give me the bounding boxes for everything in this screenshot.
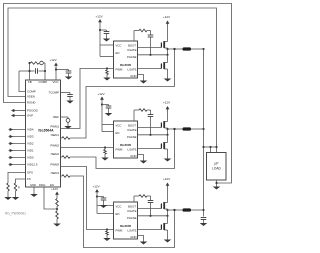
capacitor output bulk xyxy=(201,217,207,219)
svg-text:COMP: COMP xyxy=(39,80,48,84)
wire load feed drop 1 xyxy=(210,147,212,153)
svg-text:ISL6605: ISL6605 xyxy=(120,224,132,228)
svg-text:VID3: VID3 xyxy=(27,135,34,139)
resistor EN upper xyxy=(56,199,59,207)
wire PGOOD xyxy=(14,110,26,112)
wire Q1A source to phase xyxy=(167,48,169,55)
ground PWM2 pulldown xyxy=(104,154,106,158)
svg-text:VID0: VID0 xyxy=(27,156,34,160)
wire VID1 input xyxy=(9,150,26,152)
transistor Q1B lower xyxy=(160,64,162,69)
ground driver 1 xyxy=(140,81,148,84)
node load feed junction 2 xyxy=(209,146,211,148)
wire COMP top stub xyxy=(44,63,46,80)
uP load box xyxy=(207,153,227,181)
wire load feed xyxy=(204,146,217,148)
wire Q2A drain xyxy=(167,109,169,122)
power +12V driver 1 xyxy=(99,21,101,24)
wire driver 2 GND pin xyxy=(138,155,144,161)
wire PWM3 route xyxy=(61,167,114,230)
svg-text:OVP: OVP xyxy=(27,114,33,118)
svg-text:PWM: PWM xyxy=(116,68,124,72)
wire Q1A drain xyxy=(167,24,169,42)
wire EN sense route xyxy=(44,187,57,209)
wire phase node 3 xyxy=(168,209,183,211)
svg-text:EN: EN xyxy=(116,212,120,216)
node phase FET junction 1 xyxy=(166,48,168,50)
node driver 2 cap junction xyxy=(101,103,103,105)
svg-text:PHASE: PHASE xyxy=(127,135,137,139)
svg-text:PWM2: PWM2 xyxy=(50,144,59,148)
svg-text:RG_PW000A1: RG_PW000A1 xyxy=(5,212,26,216)
svg-text:OFS: OFS xyxy=(27,171,33,175)
capacitor driver 2 decoupling xyxy=(102,104,109,106)
ground PWM1 pulldown xyxy=(106,75,108,78)
svg-text:PWM: PWM xyxy=(116,229,124,233)
wire PHASE pin 2 xyxy=(138,134,168,136)
svg-text:GND: GND xyxy=(30,183,36,187)
wire ISEN1 route xyxy=(70,49,175,138)
svg-text:ISEN1: ISEN1 xyxy=(51,133,60,137)
wire VCC stub xyxy=(55,67,57,81)
capacitor bootstrap C2 xyxy=(148,114,154,116)
svg-text:COMP: COMP xyxy=(27,90,36,94)
resistor ISEN1 xyxy=(61,137,63,139)
power +12V FET 1 xyxy=(167,22,169,25)
svg-text:+12V: +12V xyxy=(163,101,170,105)
wire driver 3 GND pin xyxy=(138,236,144,242)
svg-text:FB: FB xyxy=(28,80,32,84)
wire driver 2 vcc column xyxy=(101,100,103,132)
ground controller GND xyxy=(30,194,38,197)
ground Q3B source xyxy=(164,240,172,243)
node PWM1 pulldown junction xyxy=(106,67,108,69)
node VOUT-phase3 junction xyxy=(202,209,204,211)
resistor comp R xyxy=(31,62,40,65)
wire LGATE 1 xyxy=(138,68,162,70)
wire VCC cap branch xyxy=(56,69,69,71)
capacitor bootstrap C3 xyxy=(148,200,154,202)
power +12V FET 3 xyxy=(167,184,169,187)
ground PWM3 pulldown xyxy=(106,235,108,238)
wire PWM2 route xyxy=(61,147,114,149)
wire FB stub xyxy=(29,63,31,80)
svg-text:GND: GND xyxy=(130,154,136,158)
inductor L1 xyxy=(183,47,192,50)
wire comp mid branch xyxy=(19,70,35,72)
svg-text:REF: REF xyxy=(53,115,59,119)
wire BOOT 2 xyxy=(133,110,135,121)
resistor boot 1 xyxy=(139,29,147,32)
wire UGATE 2 xyxy=(138,127,162,129)
transistor Q2B lower xyxy=(160,144,162,149)
svg-text:R: R xyxy=(18,187,20,190)
resistor PWM2 pulldown xyxy=(104,148,106,150)
ground driver 3 xyxy=(140,242,148,245)
node phase FET junction 3 xyxy=(166,209,168,211)
svg-text:PWM: PWM xyxy=(116,148,124,152)
node VOUT-phase1 junction xyxy=(202,48,204,50)
node load ground junction xyxy=(215,182,217,184)
ground FS xyxy=(15,191,17,197)
ground load xyxy=(213,187,221,190)
resistor PWM1 pulldown xyxy=(106,69,108,71)
svg-text:VID12.5: VID12.5 xyxy=(27,163,38,167)
node comp mid junctions xyxy=(28,70,30,72)
node VOUT-phase2 junction xyxy=(202,128,204,130)
capacitor comp series C xyxy=(40,61,44,65)
wire BOOT 1 xyxy=(133,31,135,42)
node PWM3 pulldown junction xyxy=(106,228,108,230)
svg-text:LGATE: LGATE xyxy=(128,68,137,72)
wire OVP xyxy=(14,115,26,117)
node ISEN3 phase junction xyxy=(173,209,175,211)
svg-text:PWM3: PWM3 xyxy=(50,163,59,167)
wire VOUT rail xyxy=(203,49,205,217)
wire boot cap drop 3 xyxy=(147,195,151,197)
svg-text:+12V: +12V xyxy=(163,15,170,19)
power +12V controller VCC xyxy=(55,64,57,70)
wire boot cap drop 2 xyxy=(147,109,151,111)
svg-text:VSEN: VSEN xyxy=(27,95,35,99)
capacitor comp mid C xyxy=(35,68,37,74)
svg-text:VCC: VCC xyxy=(116,44,122,48)
svg-text:VCC: VCC xyxy=(116,205,122,209)
svg-text:+12V: +12V xyxy=(98,92,105,96)
resistor ISEN2 xyxy=(61,156,63,158)
wire Q3B source xyxy=(167,230,169,240)
ground Q1B source xyxy=(164,79,172,82)
ground EN divider xyxy=(56,219,58,224)
svg-text:ISEN2: ISEN2 xyxy=(51,152,60,156)
svg-text:LOAD: LOAD xyxy=(212,167,221,171)
node ISEN1 phase junction xyxy=(173,48,175,50)
svg-text:UGATE: UGATE xyxy=(127,48,137,52)
svg-text:+12V: +12V xyxy=(93,185,100,189)
svg-text:VCC: VCC xyxy=(53,80,59,84)
svg-text:EN: EN xyxy=(116,51,120,55)
svg-text:+12V: +12V xyxy=(163,177,170,181)
wire GND pin xyxy=(33,187,35,194)
driver U3 ISL6605 box xyxy=(114,121,138,158)
power +12V FET 2 xyxy=(167,108,169,111)
svg-text:ISL6605: ISL6605 xyxy=(120,143,132,147)
svg-text:+12V: +12V xyxy=(51,187,58,191)
svg-text:VID4: VID4 xyxy=(27,128,34,132)
wire Q2B drain to phase xyxy=(167,135,169,143)
resistor ISEN3 xyxy=(61,175,63,177)
wire UGATE 1 xyxy=(138,47,162,49)
svg-text:ISEN3: ISEN3 xyxy=(51,171,60,175)
wire inductor 2 to VOUT xyxy=(191,128,204,130)
controller U1 ISL6564A box xyxy=(26,80,61,187)
node FB junction top xyxy=(28,62,30,64)
wire ISEN2 route xyxy=(70,129,175,169)
svg-text:TCOMP: TCOMP xyxy=(49,91,60,95)
wire RGND remote sense loop xyxy=(4,4,232,184)
svg-text:DRLL: DRLL xyxy=(39,183,46,187)
wire phase node 1 xyxy=(168,48,183,50)
svg-text:+12V: +12V xyxy=(96,15,103,19)
node PWM2 pulldown junction xyxy=(104,146,106,148)
ground driver 2 xyxy=(140,161,148,164)
inductor L3 xyxy=(183,208,192,211)
driver U4 ISL6605 box xyxy=(114,202,138,239)
svg-text:LGATE: LGATE xyxy=(128,229,137,233)
wire TCOMP stub xyxy=(61,92,71,94)
svg-text:GND: GND xyxy=(130,235,136,239)
svg-text:VID2: VID2 xyxy=(27,142,34,146)
wire inductor 1 to VOUT xyxy=(191,48,204,50)
capacitor driver 3 decoupling xyxy=(97,196,104,198)
transistor Q3B lower xyxy=(160,225,162,230)
wire driver 1 vcc column xyxy=(99,22,101,57)
wire Q2A source to phase xyxy=(167,128,169,135)
resistor boot 3 xyxy=(139,195,147,198)
capacitor TCOMP xyxy=(69,93,71,95)
resistor boot 2 xyxy=(139,109,147,112)
wire inductor 3 to VOUT xyxy=(191,209,204,211)
wire driver 1 GND pin xyxy=(138,75,144,81)
transistor Q1A upper xyxy=(160,43,162,48)
wire Q3A drain xyxy=(167,186,169,203)
wire VID2 input xyxy=(9,143,26,145)
wire COMP left pin route xyxy=(19,71,26,92)
svg-text:VID1: VID1 xyxy=(27,149,34,153)
wire VID3 input xyxy=(9,136,26,138)
wire PWM1 route xyxy=(61,69,114,129)
node EN divider xyxy=(56,208,58,210)
svg-text:PWM1: PWM1 xyxy=(50,125,59,129)
wire VID12.5 input xyxy=(9,164,26,166)
svg-text:µP: µP xyxy=(215,162,219,166)
node VSEN-load junction xyxy=(215,146,217,148)
wire OFS route xyxy=(8,173,26,184)
wire FS route xyxy=(16,179,26,183)
wire PHASE pin 3 xyxy=(138,215,168,217)
node driver 1 cap junction xyxy=(99,29,101,31)
resistor OFS xyxy=(7,183,10,191)
wire UGATE 3 xyxy=(138,208,162,210)
wire driver 3 vcc column xyxy=(96,192,98,214)
wire load feed drop 2 xyxy=(216,147,218,153)
svg-text:EN: EN xyxy=(50,183,54,187)
svg-text:EN: EN xyxy=(116,131,120,135)
wire Q3B drain to phase xyxy=(167,216,169,224)
resistor FS xyxy=(14,183,17,191)
node load feed junction xyxy=(202,146,204,148)
svg-text:FS: FS xyxy=(27,177,31,181)
capacitor bootstrap C1 xyxy=(148,34,154,36)
ground Q2B source xyxy=(164,159,172,162)
resistor PWM3 pulldown xyxy=(106,230,108,232)
capacitor driver 1 decoupling xyxy=(100,29,107,31)
wire BOOT 3 xyxy=(133,196,135,202)
transistor Q3A upper xyxy=(160,204,162,209)
wire boot cap drop 1 xyxy=(147,30,151,32)
wire LGATE 2 xyxy=(138,148,162,150)
wire ISEN3 route xyxy=(70,176,175,248)
wire phase node 2 xyxy=(168,128,183,130)
power +12V driver 3 xyxy=(96,191,98,194)
wire Q1B drain to phase xyxy=(167,55,169,63)
driver U2 ISL6605 box xyxy=(114,41,138,78)
svg-text:+12V: +12V xyxy=(50,58,57,62)
wire Q2B source xyxy=(167,149,169,159)
wire PHASE pin 1 xyxy=(138,54,168,56)
wire VID4 input xyxy=(9,129,26,131)
svg-text:UGATE: UGATE xyxy=(127,128,137,132)
transistor Q2A upper xyxy=(160,123,162,128)
svg-text:VCC: VCC xyxy=(116,124,122,128)
wire Q3A source to phase xyxy=(167,209,169,216)
svg-text:GND: GND xyxy=(130,74,136,78)
svg-text:PHASE: PHASE xyxy=(127,216,137,220)
capacitor VCC decoupling xyxy=(68,70,70,72)
wire load ground stem xyxy=(216,180,218,187)
node phase FET junction 2 xyxy=(166,128,168,130)
capacitor REF xyxy=(67,117,69,119)
wire VSEN remote sense loop xyxy=(8,8,217,147)
svg-text:ISL6605: ISL6605 xyxy=(120,63,132,67)
resistor EN lower xyxy=(56,207,58,212)
svg-text:UGATE: UGATE xyxy=(127,209,137,213)
wire Q1B source xyxy=(167,69,169,79)
svg-text:RGND: RGND xyxy=(27,101,36,105)
ground OFS xyxy=(7,191,9,197)
wire LGATE 3 xyxy=(138,229,162,231)
node driver 3 cap junction xyxy=(96,195,98,197)
power +12V EN divider xyxy=(56,193,58,199)
power +12V driver 2 xyxy=(101,98,103,101)
wire VID0 input xyxy=(9,157,26,159)
svg-text:PGOOD: PGOOD xyxy=(27,109,38,113)
inductor L2 xyxy=(183,127,192,130)
wire REF stub xyxy=(61,116,69,118)
svg-text:ISL6564A: ISL6564A xyxy=(38,129,54,133)
node ISEN2 phase junction xyxy=(173,128,175,130)
svg-text:LGATE: LGATE xyxy=(128,148,137,152)
svg-text:PHASE: PHASE xyxy=(127,55,137,59)
